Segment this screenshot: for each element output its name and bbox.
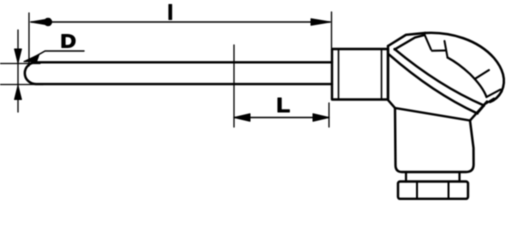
extension line right (L) (328, 103, 330, 127)
arrow left (l) (31, 19, 51, 25)
leader line D (30, 51, 84, 60)
dot on left arrow (l) (44, 18, 52, 26)
extension line top edge (D) (0, 63, 40, 65)
svg-text:L: L (277, 95, 291, 117)
extension line right (l) (331, 12, 333, 48)
facet tick left (425, 35, 432, 50)
neck inner line left (338, 50, 340, 99)
cap band bottom line (389, 55, 478, 114)
dimension line l (31, 21, 330, 23)
svg-text:D: D (61, 31, 77, 52)
head body outline (388, 46, 487, 172)
arrow right (l) (311, 19, 331, 25)
arrow up (D lower) (15, 86, 22, 100)
cap band right end (479, 106, 485, 113)
extension line bottom edge (D) (0, 84, 43, 86)
leader arrowhead D (24, 55, 39, 62)
arrow down (D upper) (15, 49, 22, 63)
facet bar (432, 50, 445, 52)
gland nut inner line left (416, 182, 418, 199)
neck inner line right (381, 50, 383, 99)
dome chord B (487, 90, 501, 98)
arrow right (L) (313, 114, 329, 122)
probe tube with rounded tip (25, 62, 332, 84)
facet tick right (445, 41, 448, 58)
dome inner curve (448, 58, 487, 98)
arrow left (L) (234, 114, 250, 122)
cap shoulder inner (395, 35, 425, 49)
dome chord A (476, 70, 490, 79)
svg-text:l: l (168, 3, 174, 25)
dome outer arc (425, 33, 504, 92)
extension line left (L) (233, 45, 235, 127)
body top front edge (395, 108, 470, 121)
gland stub right (458, 172, 460, 182)
dome arc end hook (490, 92, 502, 103)
cap shoulder outer (388, 33, 425, 46)
dimension D vertical line (17, 30, 19, 112)
cap band top line (395, 49, 485, 106)
dimension line L (234, 117, 329, 119)
gland stub left (405, 172, 407, 182)
neck rectangle (332, 49, 388, 100)
extension line left (l) (28, 13, 30, 66)
dome chord C (484, 99, 495, 106)
gland nut (398, 182, 468, 199)
gland nut inner line right (448, 182, 450, 199)
